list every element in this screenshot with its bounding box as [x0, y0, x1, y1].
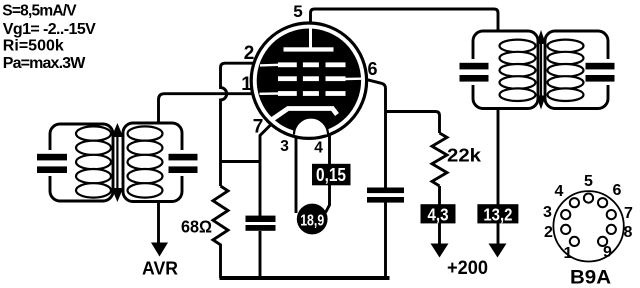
- svg-text:4: 4: [555, 183, 564, 200]
- svg-text:9: 9: [603, 244, 612, 261]
- svg-text:6: 6: [613, 182, 622, 199]
- svg-text:3: 3: [543, 204, 552, 221]
- svg-text:AVR: AVR: [142, 258, 178, 279]
- svg-text:4,3: 4,3: [428, 205, 449, 225]
- svg-text:0,15: 0,15: [316, 165, 346, 185]
- svg-text:5: 5: [584, 173, 593, 190]
- svg-text:B9A: B9A: [570, 267, 611, 288]
- svg-text:13,2: 13,2: [483, 205, 512, 225]
- svg-text:1: 1: [241, 74, 252, 95]
- svg-text:7: 7: [253, 117, 264, 138]
- svg-text:2: 2: [544, 224, 553, 241]
- svg-text:6: 6: [367, 59, 377, 79]
- svg-text:3: 3: [280, 138, 289, 155]
- svg-text:Vg1= -2..-15V: Vg1= -2..-15V: [3, 21, 96, 38]
- svg-text:18,9: 18,9: [300, 212, 324, 229]
- svg-text:7: 7: [624, 205, 633, 222]
- svg-text:2: 2: [244, 43, 255, 64]
- svg-text:4: 4: [314, 140, 323, 157]
- svg-text:8: 8: [624, 224, 633, 241]
- svg-text:22k: 22k: [447, 146, 482, 166]
- svg-text:68Ω: 68Ω: [181, 217, 212, 237]
- svg-text:5: 5: [293, 2, 302, 21]
- svg-text:Pa=max.3W: Pa=max.3W: [3, 55, 86, 72]
- svg-text:+200: +200: [447, 258, 488, 279]
- svg-text:S=8,5mA/V: S=8,5mA/V: [2, 2, 77, 19]
- svg-text:1: 1: [564, 245, 573, 262]
- svg-text:Ri=500k: Ri=500k: [3, 37, 64, 54]
